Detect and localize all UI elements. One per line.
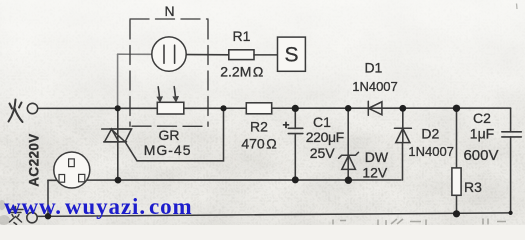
wire lamp branch horizontal	[118, 53, 152, 55]
switch box S	[278, 37, 306, 71]
socket pin left	[59, 175, 65, 183]
terminal neutral	[27, 212, 37, 222]
diode D2 lead	[402, 108, 404, 142]
svg-text:AC220V: AC220V	[27, 133, 42, 186]
socket pin top	[69, 159, 75, 167]
zener DW bar with wings	[339, 152, 359, 158]
capacitor C2 top lead / right edge	[510, 108, 512, 132]
resistor R3 body	[452, 168, 461, 195]
node socket neutral drop	[45, 213, 51, 219]
zener DW lead	[347, 108, 349, 180]
capacitor C1 plates	[288, 127, 303, 129]
lamp electrodes	[163, 45, 165, 63]
hanzi huo (live)	[9, 100, 23, 123]
diode D2 triangle	[396, 128, 410, 142]
resistor R1	[229, 50, 254, 60]
svg-text:DW: DW	[365, 149, 389, 165]
svg-text:1μF: 1μF	[470, 126, 494, 142]
wire R1 to S	[254, 54, 278, 56]
neutral rail2	[37, 213, 510, 217]
svg-text:600V: 600V	[463, 147, 498, 164]
diode D1	[367, 101, 369, 115]
svg-text:S: S	[284, 44, 298, 67]
svg-text:N: N	[164, 3, 174, 19]
light arrow 2	[174, 87, 176, 99]
node C C1 top	[292, 105, 299, 112]
socket left drop	[47, 180, 49, 216]
hanzi ling (neutral)	[8, 207, 23, 225]
svg-text:25V: 25V	[310, 145, 336, 161]
node R3 bottom	[453, 210, 460, 217]
terminal live (huo)	[27, 103, 37, 113]
zener DW triangle	[342, 155, 356, 169]
node triac bottom	[115, 177, 122, 184]
dashed enclosure N	[130, 19, 208, 126]
svg-text:www.wuyazi.com: www.wuyazi.com	[4, 194, 193, 219]
svg-text:GR: GR	[159, 127, 180, 143]
svg-text:C2: C2	[473, 110, 491, 126]
resistor R3 leads	[456, 108, 458, 168]
node D DW top	[345, 105, 352, 112]
triac triangle down	[111, 129, 132, 142]
socket circle	[54, 152, 90, 188]
faint cut-off caption fragments at bottom	[333, 219, 506, 226]
svg-text:220μF: 220μF	[306, 129, 344, 145]
triac triangle up	[105, 129, 119, 142]
svg-text:R2: R2	[250, 118, 268, 134]
triac top bar	[102, 128, 132, 130]
svg-text:MG-45: MG-45	[144, 142, 192, 158]
light arrow 1	[158, 87, 160, 99]
corner C2 bottom	[509, 211, 513, 215]
svg-text:R1: R1	[233, 28, 251, 44]
arrowheads for light arrows	[156, 96, 179, 103]
svg-text:1N4007: 1N4007	[408, 144, 454, 159]
resistor R2	[246, 103, 271, 114]
svg-text:D2: D2	[421, 125, 439, 141]
capacitor C2 plates	[502, 131, 522, 133]
node F R3/C2 top	[453, 105, 460, 112]
triac main vertical	[117, 108, 119, 180]
bottom-left corner smudge	[0, 200, 10, 225]
faint top-right mark	[516, 4, 519, 10]
node E D1/D2	[399, 105, 406, 112]
node B gate/GR/R2	[220, 105, 226, 111]
wire live line main horizontal	[38, 107, 158, 109]
neon lamp N circle	[152, 37, 186, 71]
svg-text:2.2MΩ: 2.2MΩ	[220, 63, 263, 79]
capacitor C1 leads	[294, 108, 296, 128]
svg-text:1N4007: 1N4007	[352, 79, 398, 94]
rail1 (live return)	[84, 179, 401, 181]
svg-text:R3: R3	[464, 179, 482, 195]
photoresistor GR	[157, 102, 184, 114]
triac bottom bar	[104, 141, 127, 143]
svg-text:C1: C1	[313, 114, 331, 130]
svg-text:470Ω: 470Ω	[241, 135, 276, 151]
svg-text:+: +	[282, 118, 289, 132]
node A triac top	[115, 105, 121, 111]
socket left wire	[48, 179, 58, 181]
socket pin right	[79, 174, 85, 181]
node DW bottom	[345, 177, 352, 184]
wire lamp branch riser	[117, 54, 119, 108]
svg-text:D1: D1	[364, 60, 382, 76]
node C1 bottom	[292, 176, 299, 183]
diode D2 bar	[394, 127, 411, 129]
triac gate diagonal	[125, 108, 223, 161]
svg-text:12V: 12V	[362, 165, 388, 181]
